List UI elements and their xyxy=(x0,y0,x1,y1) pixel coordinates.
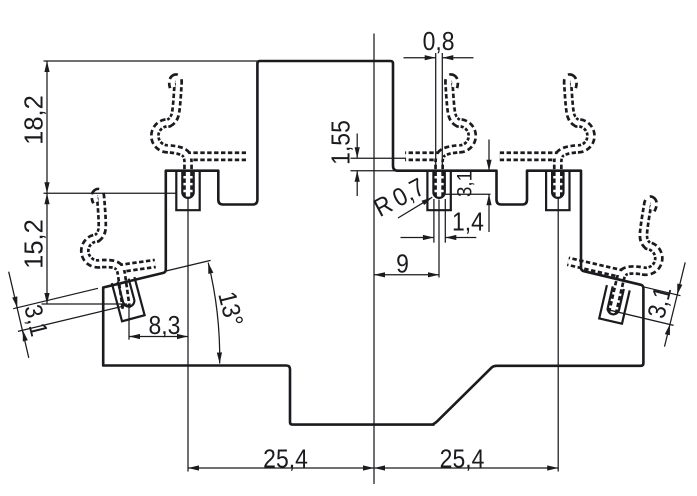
arrow 0,8 left xyxy=(425,55,436,60)
svg-text:3,1: 3,1 xyxy=(453,171,476,197)
arrow 13deg bottom xyxy=(217,352,222,363)
dimension line 3,1 right inclined xyxy=(665,262,686,346)
dimension line 3,1 lower xyxy=(488,194,490,232)
svg-text:18,2: 18,2 xyxy=(21,95,49,145)
extension line clip leg bottom xyxy=(351,157,407,159)
dimension line 0,8 right xyxy=(442,57,473,59)
dimension line 1,4 right xyxy=(445,237,476,239)
extension line slot3 right wall xyxy=(444,199,446,243)
arrow down 18,2 xyxy=(44,182,49,193)
dimension line 1,55 lower xyxy=(356,171,358,196)
extension line, tower top to left xyxy=(44,60,258,62)
arrow 3,1 down xyxy=(486,160,491,171)
svg-text:1,4: 1,4 xyxy=(452,208,484,236)
part outline (bracket profile) xyxy=(103,61,643,425)
extension ray horizontal xyxy=(221,365,282,367)
dimension line 3,1 left inclined xyxy=(9,272,29,358)
dimension line 1,55 upper xyxy=(356,134,358,159)
dimension line 25,4 both xyxy=(188,467,558,469)
extension line wire left edge xyxy=(435,53,437,167)
svg-text:15,2: 15,2 xyxy=(21,219,49,269)
dimension line 18,2 xyxy=(46,61,48,193)
svg-text:25,4: 25,4 xyxy=(263,445,308,473)
arrow 3,1 right lower xyxy=(665,324,670,335)
svg-text:0,8: 0,8 xyxy=(423,28,455,56)
spring clip 4 (upper right, mirrored, dashed) xyxy=(500,78,591,198)
svg-text:1,55: 1,55 xyxy=(327,120,355,165)
extension line wire right edge xyxy=(441,53,443,167)
dimension line 8,3 xyxy=(129,336,188,338)
extension ray of flange edge xyxy=(167,260,211,271)
slot 3 (center) xyxy=(427,171,450,211)
extension line slot2 center xyxy=(128,307,130,340)
extension line slot1 center xyxy=(187,198,189,472)
slot 1 (upper left) xyxy=(176,171,199,211)
arrow 9 right xyxy=(428,272,439,277)
arrow 1,4 right xyxy=(445,235,456,240)
arrow 25,4 center right-pointing xyxy=(363,465,374,470)
slot 5 (lower right, rotated 13 deg) xyxy=(599,285,629,324)
dimension line 1,4 left xyxy=(401,237,434,239)
extension of right flange edge xyxy=(643,287,680,296)
svg-text:25,4: 25,4 xyxy=(440,445,485,473)
slot 2 (lower left, rotated 13 deg) xyxy=(112,277,145,321)
arrow 8,3 right xyxy=(177,334,188,339)
arrow up 15,2 xyxy=(44,193,49,204)
dimension line 0,8 left xyxy=(404,57,436,59)
dimension line 9 xyxy=(374,274,439,276)
arrow 25,4 far left xyxy=(188,465,199,470)
extension of left flange edge xyxy=(13,288,98,308)
extension line at slot2 bottom xyxy=(42,303,128,305)
arrow 13deg top xyxy=(208,263,213,274)
leader line R 0,7 xyxy=(398,197,432,218)
arrow 0,8 right xyxy=(442,55,453,60)
arrow 9 left xyxy=(374,272,385,277)
svg-text:8,3: 8,3 xyxy=(149,312,181,340)
svg-text:9: 9 xyxy=(396,250,409,278)
dimension line 3,1 upper xyxy=(488,140,490,171)
arrow 3,1 up xyxy=(486,194,491,205)
arrow 1,4 left xyxy=(423,235,434,240)
spring clip 2 (lower left, on 13-deg flange, dashed) xyxy=(77,186,161,314)
extension line slot3 bottom xyxy=(445,193,491,195)
spring clip 5 (lower right, on 13-deg flange, mirrored, dashed) xyxy=(559,185,672,321)
arrow 3,1 right upper xyxy=(677,284,682,295)
arrow 25,4 far right xyxy=(547,465,558,470)
arrow down 15,2 xyxy=(44,293,49,304)
spring clip 1 (upper left, dashed) xyxy=(155,78,246,198)
arrow 25,4 center left-pointing xyxy=(374,465,385,470)
extension line slot4 center xyxy=(557,198,559,472)
arrow up 18,2 xyxy=(44,61,49,72)
arrow 1,55 up xyxy=(355,171,360,182)
extension tangent slot5 bottom xyxy=(607,309,674,325)
arrow 3,1 left lower xyxy=(23,330,28,341)
arrow 3,1 left upper xyxy=(12,296,17,307)
extension line at slot1 bottom xyxy=(44,192,178,194)
leader arrow R 0,7 xyxy=(422,197,433,205)
extension line shelf top xyxy=(351,170,398,172)
spring clip 3 (center, mirrored, dashed) xyxy=(405,78,472,198)
extension line slot3 center xyxy=(438,200,440,278)
13 deg arc xyxy=(208,263,220,364)
slot 4 (upper right) xyxy=(546,171,569,211)
arrow 1,55 down xyxy=(355,147,360,158)
arrow 8,3 left xyxy=(129,334,140,339)
center line xyxy=(373,34,375,485)
extension line slot3 left wall xyxy=(433,199,435,243)
extension tangent slot2 bottom xyxy=(18,305,130,332)
dimension line 15,2 xyxy=(46,193,48,304)
